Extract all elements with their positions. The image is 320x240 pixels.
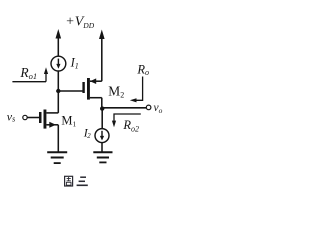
wire left VDD rail	[57, 37, 59, 57]
svg-text:Ro1: Ro1	[19, 65, 37, 81]
wire M2 drain to node B	[101, 98, 103, 109]
wire M1 drain lead	[46, 112, 58, 114]
wire I2 to ground	[101, 143, 103, 152]
arrow Ro1	[12, 81, 46, 83]
wire vs to M1 gate	[27, 117, 39, 119]
power arrow left VDD	[56, 29, 62, 39]
svg-text:vs: vs	[7, 109, 15, 123]
arrow Ro2	[114, 114, 141, 122]
power arrow right VDD	[99, 30, 105, 40]
svg-text:I2: I2	[83, 125, 91, 140]
wire node A to M1 drain	[57, 91, 59, 113]
node B junction dot	[100, 106, 104, 110]
node A junction dot	[56, 89, 60, 93]
wire I1 to node A	[57, 71, 59, 91]
svg-text:+VDD: +VDD	[65, 15, 94, 31]
wire output	[102, 107, 146, 109]
arrow Ro	[135, 77, 143, 101]
transistor M2 gate and channel bars	[82, 82, 84, 93]
transistor M1 gate and channel bars	[39, 112, 42, 123]
ground right	[93, 151, 112, 153]
svg-text:M2: M2	[108, 84, 124, 100]
svg-text:I1: I1	[70, 55, 79, 70]
caption figure three	[65, 176, 88, 186]
wire node B to I2	[101, 109, 103, 129]
svg-text:Ro2: Ro2	[122, 118, 139, 133]
current source I2	[95, 129, 109, 143]
svg-text:Ro: Ro	[136, 63, 149, 77]
wire node A to M2 gate	[58, 90, 82, 92]
wire M2 drain lead	[90, 97, 102, 99]
wire M2 source to VDD	[101, 37, 103, 81]
ground left	[47, 151, 67, 153]
svg-text:M1: M1	[61, 113, 76, 128]
wire M1 source to ground	[57, 125, 59, 152]
current source I1	[51, 56, 66, 71]
terminal vo	[146, 105, 151, 110]
wire M1 source lead with arrow	[46, 124, 58, 126]
terminal vs	[23, 115, 27, 119]
svg-text:vo: vo	[154, 102, 163, 115]
wire M2 source lead with arrow	[90, 80, 102, 82]
